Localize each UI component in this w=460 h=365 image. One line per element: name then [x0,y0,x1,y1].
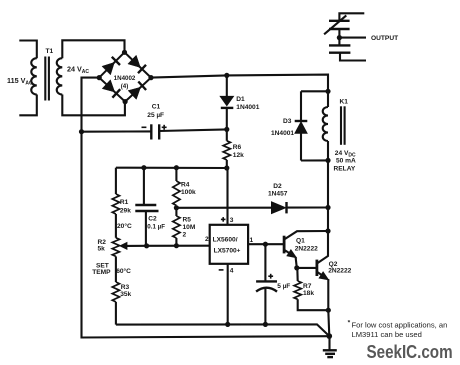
resistor R1 29k [112,168,119,238]
label C1 polarity [142,125,167,130]
node Q1 emitter / Q2 base [294,265,299,270]
transformer T1 core [45,57,49,101]
diode D2 1N457 [271,202,328,214]
svg-text:1N4001: 1N4001 [271,130,294,137]
transformer T1 primary [19,41,37,116]
svg-text:D2: D2 [273,183,282,190]
node bridge bottom [123,99,128,104]
svg-text:1: 1 [250,237,254,244]
svg-text:R1: R1 [120,199,129,206]
node C2 top [141,165,146,170]
svg-text:0.1 µF: 0.1 µF [147,224,165,231]
label pin 3 [221,217,226,222]
diode D1 1N4001 [220,75,234,129]
resistor R5 10M [173,208,180,246]
resistor R4 100k [173,168,180,208]
svg-text:D1: D1 [236,96,245,103]
svg-text:*: * [348,320,351,327]
svg-text:D3: D3 [283,118,292,125]
node pin4 ground [225,322,230,327]
transistor Q1 2N2222 [284,231,328,268]
ground [323,336,337,357]
node bridge left [97,75,102,80]
node D2 cathode [325,205,330,210]
svg-text:LX5700+: LX5700+ [214,247,241,254]
svg-text:10M: 10M [183,224,196,231]
capacitor C2 0.1uF [135,168,158,246]
svg-text:2: 2 [183,232,187,239]
node C1 left [79,129,84,134]
capacitor C1 25uF [82,124,227,139]
svg-text:12k: 12k [233,152,244,159]
svg-text:18k: 18k [303,290,314,297]
wire bridge right to relay (V+ rail) [151,75,328,92]
node bridge right [148,75,153,80]
node C1 right [224,127,229,132]
wire R2 to R3 [115,256,117,282]
svg-text:RELAY: RELAY [334,166,356,173]
label 5uF polarity [268,274,273,279]
wire ground rail (IC side) [116,324,329,336]
svg-text:20°C: 20°C [117,222,132,230]
svg-text:60°C: 60°C [116,267,131,275]
transformer T1 secondary [57,40,125,115]
node R6 bottom [224,165,229,170]
svg-text:25 µF: 25 µF [147,112,164,119]
svg-text:5k: 5k [98,246,106,253]
node ground junction [327,333,333,339]
svg-text:5 µF: 5 µF [277,283,290,290]
wire R2 wiper to IC pin 2 [147,245,210,247]
relay K1 coil [323,91,328,160]
node relay bottom [325,158,330,163]
svg-text:LM3911 can be used: LM3911 can be used [352,330,422,339]
diode D3 1N4001 [295,91,308,160]
node output common [337,35,342,40]
svg-text:C2: C2 [148,216,157,223]
wire R4R5 junction to D2 [176,207,271,209]
wire Q2 emitter to ground [328,310,329,336]
wire relay top to D3 [301,90,328,92]
svg-text:R5: R5 [183,216,192,223]
op-amp U1 LX5600/LX5700 [210,225,248,264]
svg-text:35k: 35k [120,291,131,298]
wire bridge left to ground rail [82,78,330,338]
svg-text:1N457: 1N457 [268,191,288,198]
svg-text:LX5600/: LX5600/ [213,236,238,243]
resistor R6 12k [223,129,230,168]
wire D3 bottom to relay bottom [301,159,328,161]
svg-text:(4): (4) [121,83,129,90]
IC pin 4 wire [227,264,229,325]
svg-text:1N4001: 1N4001 [236,104,259,111]
svg-text:115 VAC: 115 VAC [7,76,33,87]
transistor Q2 2N2222 [297,231,329,310]
svg-text:24 VAC: 24 VAC [67,65,89,76]
node R4 R5 junction [174,205,179,210]
wire relay bottom to collector rail [327,160,329,231]
svg-text:2N2222: 2N2222 [328,268,351,275]
svg-text:OUTPUT: OUTPUT [371,35,398,42]
svg-text:For low cost applications, an: For low cost applications, an [352,321,448,330]
node R5 bottom [174,243,179,248]
svg-text:2: 2 [205,236,209,243]
node relay top [325,89,330,94]
svg-text:2N2222: 2N2222 [295,245,318,252]
IC pin 1 wire [248,243,284,245]
svg-text:29k: 29k [120,207,131,214]
svg-text:R6: R6 [233,144,242,151]
resistor R3 35k [112,282,119,325]
node 5uF bottom [263,322,268,327]
svg-text:1N4002: 1N4002 [114,75,136,82]
svg-text:K1: K1 [340,99,349,106]
svg-text:C1: C1 [152,104,161,111]
svg-text:3: 3 [230,217,234,224]
svg-text:TEMP: TEMP [92,269,111,276]
node R7 Q2 emitter [326,308,331,313]
wire supply rail to divider [116,167,227,169]
label pin 4 [219,269,224,271]
node D1 top [224,73,229,78]
node C2 bottom [144,243,149,248]
svg-text:100k: 100k [181,189,196,196]
potentiometer R2 5k [112,238,146,257]
svg-text:R4: R4 [181,181,190,188]
relay output contacts [324,13,366,60]
node 5uF top [263,242,268,247]
svg-text:50 mA: 50 mA [336,158,356,165]
IC pin 3 wire [226,168,228,225]
resistor R7 18k [294,268,328,310]
svg-text:SeekIC.com: SeekIC.com [367,341,453,362]
relay K1 core [341,106,345,145]
svg-text:T1: T1 [46,48,54,55]
capacitor 5uF [256,244,277,324]
node R4 top [174,165,179,170]
node Q1 collector [325,228,330,233]
svg-text:4: 4 [230,268,234,275]
svg-text:R7: R7 [303,283,312,290]
svg-text:Q1: Q1 [296,237,305,244]
svg-text:R3: R3 [121,284,130,291]
node bridge top [122,50,127,55]
diode bridge 1N4002 (4) [99,52,151,101]
